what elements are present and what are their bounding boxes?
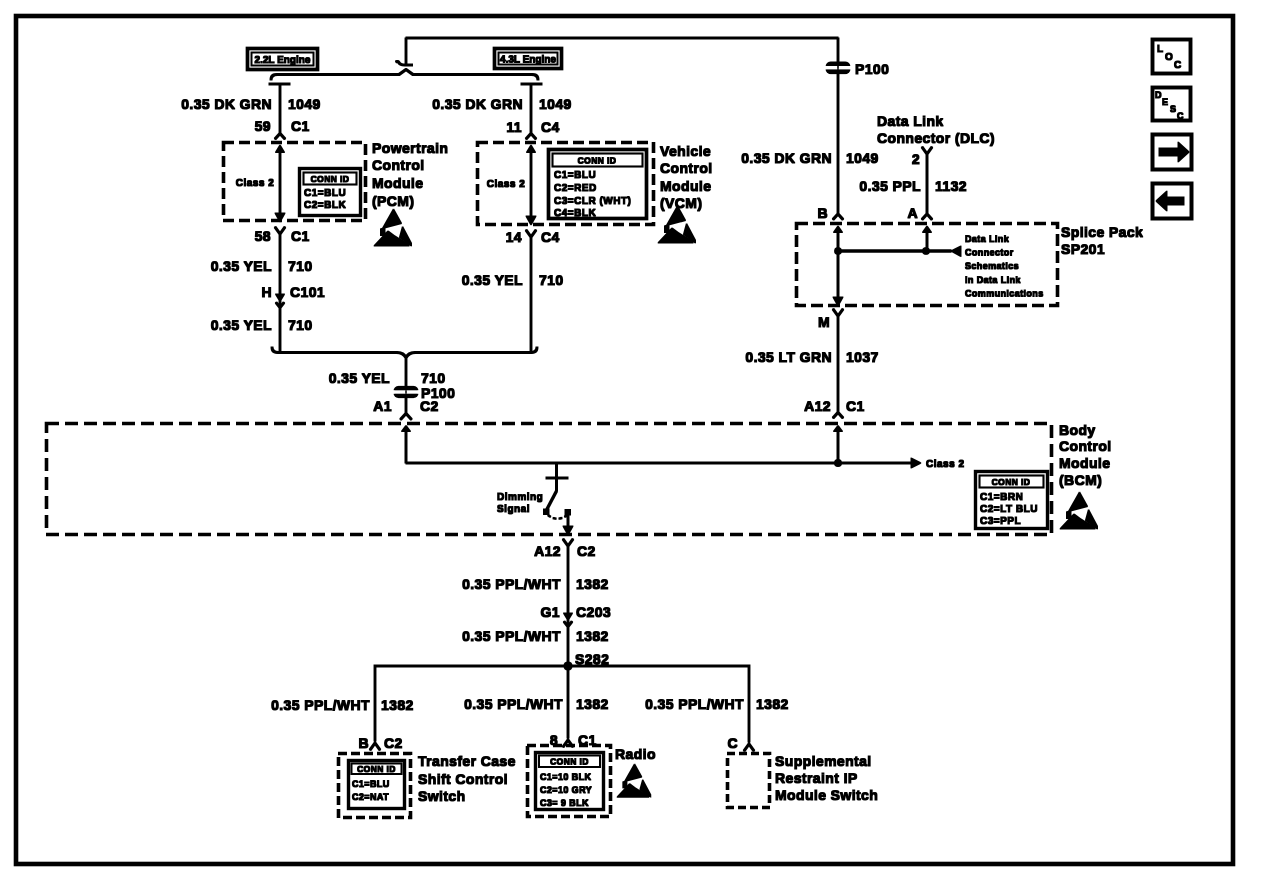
pin 14 C4: [506, 229, 560, 245]
CONN ID table transfer case: [349, 761, 405, 809]
svg-text:C2=LT BLU: C2=LT BLU: [980, 504, 1038, 515]
arrow into BCM (A1): [402, 426, 411, 432]
nav icon DESC: [1153, 88, 1191, 122]
transfer case switch box: [339, 754, 411, 818]
svg-text:4.3L Engine: 4.3L Engine: [500, 55, 556, 66]
junction node B: [835, 248, 842, 255]
connector arrow into PCM: [275, 134, 285, 140]
label 2.2L Engine: [248, 49, 318, 70]
svg-text:C3=PPL: C3=PPL: [980, 516, 1021, 527]
wire label 0.35 DK GRN 1049 (left): [181, 96, 321, 112]
wire P100 to BCM: [405, 398, 407, 414]
svg-text:CONN ID: CONN ID: [578, 156, 617, 166]
svg-text:0.35 LT GRN: 0.35 LT GRN: [745, 349, 832, 365]
wire top bus: [406, 37, 838, 39]
pin C: [727, 735, 754, 751]
wire drop from bus: [405, 38, 407, 65]
svg-text:C: C: [1174, 60, 1182, 71]
svg-text:Module: Module: [660, 178, 711, 194]
svg-text:1049: 1049: [288, 96, 321, 112]
pin A12 C2: [534, 539, 596, 559]
label Transfer Case Shift Control Switch: [418, 753, 516, 804]
splice P100 (upper): [823, 61, 889, 77]
svg-text:Powertrain: Powertrain: [372, 140, 448, 156]
svg-text:C203: C203: [576, 604, 611, 620]
svg-text:1382: 1382: [576, 628, 609, 644]
ESD icon VCM: [658, 206, 696, 243]
pin A12 C1: [804, 398, 865, 418]
svg-text:C2=NAT: C2=NAT: [352, 792, 389, 802]
wire A12 drop inside BCM: [837, 430, 839, 463]
wire A drop inside: [926, 231, 928, 251]
junction node A: [923, 248, 930, 255]
svg-text:Communications: Communications: [965, 289, 1044, 299]
svg-text:0.35 PPL/WHT: 0.35 PPL/WHT: [645, 696, 744, 712]
wire DLC pin2 drop: [926, 153, 928, 214]
svg-text:C2: C2: [384, 735, 403, 751]
svg-text:Shift Control: Shift Control: [418, 771, 508, 787]
wire label 0.35 YEL 710 (lower): [211, 317, 313, 333]
svg-text:0.35 YEL: 0.35 YEL: [211, 258, 272, 274]
svg-text:Control: Control: [660, 160, 713, 176]
svg-text:S: S: [1170, 104, 1176, 114]
svg-text:C1: C1: [846, 398, 865, 414]
svg-text:710: 710: [421, 370, 446, 386]
wire label 0.35 YEL 710 (merged): [329, 370, 446, 386]
svg-text:Body: Body: [1059, 422, 1096, 438]
splice S282: [564, 651, 609, 670]
svg-text:CONN ID: CONN ID: [550, 757, 589, 767]
arrowhead Class 2: [911, 458, 921, 468]
ESD icon PCM: [374, 209, 412, 246]
option brace: [271, 70, 538, 81]
svg-text:Signal: Signal: [497, 504, 530, 515]
wire BCM to S282: [567, 545, 569, 666]
svg-text:C1: C1: [291, 228, 310, 244]
wire label 0.35 PPL/WHT 1382 (middle branch): [464, 696, 609, 712]
svg-text:CONN ID: CONN ID: [357, 764, 396, 774]
svg-text:E: E: [1162, 97, 1168, 107]
wire label 0.35 PPL/WHT 1382 (left branch): [271, 697, 414, 713]
label Splice Pack SP201: [1061, 224, 1143, 257]
svg-text:(VCM): (VCM): [660, 195, 702, 211]
wire middle branch: [567, 666, 569, 738]
wire label 0.35 LT GRN 1037: [745, 349, 878, 365]
wire junction to P100: [405, 356, 407, 387]
connector C101 pin H: [261, 284, 325, 308]
break symbol: [396, 62, 413, 65]
svg-text:C1=BLU: C1=BLU: [304, 188, 346, 199]
svg-text:S282: S282: [575, 651, 609, 667]
nav icon forward arrow: [1153, 135, 1192, 170]
svg-text:A12: A12: [534, 543, 561, 559]
wire label 0.35 YEL 710 (upper): [211, 258, 313, 274]
CONN ID table PCM: [300, 169, 361, 216]
connector C203 pin G1: [541, 604, 612, 627]
wire VCM to junction: [530, 236, 532, 352]
svg-text:1132: 1132: [935, 178, 967, 194]
svg-text:D: D: [1155, 90, 1162, 100]
svg-text:710: 710: [539, 272, 564, 288]
svg-text:C101: C101: [290, 284, 325, 300]
wire DLC main drop: [837, 38, 839, 214]
svg-text:C2: C2: [420, 398, 439, 414]
splice pack SP201 box: [797, 224, 1058, 306]
arrow out of PCM: [275, 213, 285, 222]
merge brace: [272, 347, 537, 358]
wire BCM internal bus: [406, 462, 911, 464]
svg-text:14: 14: [506, 229, 522, 245]
wire 2.2L branch to PCM: [279, 84, 281, 213]
DLC pigtail cap: [922, 147, 932, 154]
pin M: [818, 309, 843, 330]
svg-text:C3= 9 BLK: C3= 9 BLK: [540, 798, 589, 808]
svg-text:C: C: [727, 735, 738, 751]
svg-text:2.2L Engine: 2.2L Engine: [255, 55, 311, 66]
svg-text:0.35 YEL: 0.35 YEL: [211, 317, 272, 333]
wire 2.2L branch cap: [269, 83, 290, 85]
ESD icon radio: [617, 764, 651, 797]
svg-text:1382: 1382: [576, 576, 609, 592]
label Dimming Signal: [497, 492, 543, 515]
VCM module box: [478, 143, 654, 225]
pin 59 C1: [255, 118, 310, 134]
svg-text:0.35 PPL/WHT: 0.35 PPL/WHT: [271, 697, 370, 713]
svg-text:0.35 PPL/WHT: 0.35 PPL/WHT: [464, 696, 563, 712]
CONN ID table VCM: [549, 150, 647, 220]
svg-text:Schematics: Schematics: [965, 261, 1019, 271]
arrow out of VCM: [526, 216, 536, 225]
svg-text:1049: 1049: [539, 96, 572, 112]
supplemental restraint box: [728, 754, 770, 808]
svg-text:L: L: [1157, 44, 1164, 55]
svg-text:C2=RED: C2=RED: [554, 183, 597, 194]
svg-text:C4: C4: [541, 119, 560, 135]
wire label 0.35 PPL/WHT 1382 (lower): [462, 628, 609, 644]
splice P100 (lower): [391, 385, 455, 401]
svg-text:O: O: [1165, 52, 1173, 63]
svg-text:Control: Control: [372, 157, 425, 173]
svg-text:H: H: [261, 284, 272, 300]
svg-text:1037: 1037: [846, 349, 879, 365]
svg-text:710: 710: [288, 317, 313, 333]
svg-text:0.35 PPL/WHT: 0.35 PPL/WHT: [462, 628, 561, 644]
pin 8 C1: [550, 732, 597, 748]
dimming signal switch: [544, 463, 574, 535]
svg-text:11: 11: [506, 119, 522, 135]
svg-text:C1=BLU: C1=BLU: [352, 779, 390, 789]
wire B through splice pack: [837, 231, 839, 297]
svg-text:in Data Link: in Data Link: [965, 275, 1021, 285]
svg-text:0.35 DK GRN: 0.35 DK GRN: [181, 96, 272, 112]
svg-text:Radio: Radio: [615, 746, 656, 762]
wire A1 drop inside BCM: [405, 430, 407, 463]
svg-text:G1: G1: [541, 604, 560, 620]
svg-text:A12: A12: [804, 398, 831, 414]
svg-text:CONN ID: CONN ID: [992, 477, 1031, 487]
svg-text:Module Switch: Module Switch: [775, 787, 878, 803]
arrow up inside BCM: [834, 426, 843, 432]
wire PCM to junction: [279, 233, 281, 352]
arrow out of splice pack: [833, 297, 843, 306]
svg-text:Control: Control: [1059, 438, 1112, 454]
svg-text:B: B: [358, 735, 369, 751]
svg-text:2: 2: [912, 151, 920, 167]
module name BCM: [1059, 422, 1112, 488]
svg-text:Class 2: Class 2: [487, 179, 526, 190]
svg-text:Connector: Connector: [965, 248, 1014, 258]
svg-text:0.35 YEL: 0.35 YEL: [462, 272, 523, 288]
svg-text:C3=CLR (WHT): C3=CLR (WHT): [554, 196, 631, 207]
svg-text:P100: P100: [855, 61, 889, 77]
svg-text:Module: Module: [372, 175, 423, 191]
pin B C2: [358, 735, 402, 751]
svg-text:Class 2: Class 2: [926, 459, 965, 470]
svg-text:710: 710: [288, 258, 313, 274]
wire label 0.35 PPL/WHT 1382 (right branch): [645, 696, 789, 712]
CONN ID table radio: [536, 753, 604, 810]
label 4.3L Engine: [495, 49, 562, 69]
nav icon LOC: [1153, 40, 1191, 74]
nav icon back arrow: [1153, 184, 1192, 219]
wire 4.3L branch cap: [521, 83, 542, 85]
svg-text:C4=BLK: C4=BLK: [554, 208, 596, 219]
svg-text:B: B: [817, 205, 828, 221]
svg-text:0.35 PPL: 0.35 PPL: [859, 178, 921, 194]
pin A1 C2: [373, 398, 438, 420]
svg-text:Supplemental: Supplemental: [775, 753, 872, 769]
off-page arrowhead: [951, 246, 961, 257]
svg-text:C2=10 GRY: C2=10 GRY: [540, 785, 592, 795]
arrow into splice pack (A): [922, 214, 932, 220]
wire label 0.35 PPL/WHT 1382 (upper): [462, 576, 609, 592]
pin 58 C1: [255, 227, 310, 244]
svg-text:C: C: [1177, 111, 1184, 121]
svg-text:CONN ID: CONN ID: [311, 174, 350, 184]
svg-text:59: 59: [255, 118, 271, 134]
svg-text:A: A: [907, 205, 918, 221]
svg-text:1049: 1049: [846, 150, 879, 166]
svg-text:Restraint IP: Restraint IP: [775, 770, 858, 786]
svg-text:0.35 PPL/WHT: 0.35 PPL/WHT: [462, 576, 561, 592]
svg-text:SP201: SP201: [1061, 241, 1105, 257]
svg-text:0.35 DK GRN: 0.35 DK GRN: [741, 150, 832, 166]
svg-text:C4: C4: [541, 229, 560, 245]
label Supplemental Restraint IP Module Switch: [775, 753, 878, 803]
svg-text:C1: C1: [291, 118, 310, 134]
svg-text:Data Link: Data Link: [877, 113, 944, 129]
svg-text:(PCM): (PCM): [372, 193, 414, 209]
svg-text:Splice Pack: Splice Pack: [1061, 224, 1143, 240]
radio box: [528, 746, 611, 817]
svg-text:C1=10 BLK: C1=10 BLK: [540, 772, 591, 782]
svg-text:0.35 DK GRN: 0.35 DK GRN: [432, 96, 523, 112]
svg-text:Data Link: Data Link: [965, 234, 1010, 244]
svg-text:C2=BLK: C2=BLK: [304, 200, 346, 211]
svg-text:Transfer Case: Transfer Case: [418, 753, 516, 769]
wire label 0.35 PPL 1132: [859, 178, 967, 194]
svg-text:C1=BRN: C1=BRN: [980, 492, 1023, 503]
PCM module box: [224, 143, 366, 221]
svg-text:A1: A1: [373, 398, 392, 414]
svg-text:C2: C2: [577, 543, 596, 559]
label Data Link Connector (DLC): [877, 113, 995, 146]
wire M to BCM: [837, 315, 839, 413]
module name PCM: [372, 140, 448, 209]
svg-text:58: 58: [255, 228, 271, 244]
arrow into splice pack (B): [833, 214, 843, 220]
svg-text:Module: Module: [1059, 455, 1110, 471]
svg-text:1382: 1382: [381, 697, 414, 713]
note Data Link Connector Schematics: [965, 234, 1044, 299]
BCM module box: [47, 424, 1052, 535]
wire splice bus: [838, 250, 951, 252]
connector arrow into VCM: [526, 134, 536, 140]
wire 4.3L branch to VCM: [530, 84, 532, 217]
module name VCM: [660, 143, 713, 211]
pin 11 C4: [506, 119, 559, 135]
wire label 0.35 DK GRN 1049 (DLC): [741, 150, 879, 166]
wire label 0.35 DK GRN 1049 (right): [432, 96, 572, 112]
svg-text:1382: 1382: [756, 696, 789, 712]
wire distribution bus: [375, 666, 749, 742]
svg-text:Class 2: Class 2: [236, 178, 275, 189]
svg-text:M: M: [818, 314, 830, 330]
svg-text:Dimming: Dimming: [497, 492, 543, 503]
wire label 0.35 YEL 710 (VCM): [462, 272, 564, 288]
svg-text:(BCM): (BCM): [1059, 472, 1102, 488]
svg-text:Connector (DLC): Connector (DLC): [877, 130, 995, 146]
svg-text:0.35 YEL: 0.35 YEL: [329, 370, 390, 386]
svg-text:1382: 1382: [576, 696, 609, 712]
ESD icon BCM: [1060, 492, 1098, 529]
svg-text:Switch: Switch: [418, 788, 466, 804]
svg-text:C1=BLU: C1=BLU: [554, 170, 596, 181]
junction node BCM: [835, 460, 842, 467]
svg-text:Vehicle: Vehicle: [660, 143, 711, 159]
CONN ID table BCM: [976, 472, 1048, 529]
